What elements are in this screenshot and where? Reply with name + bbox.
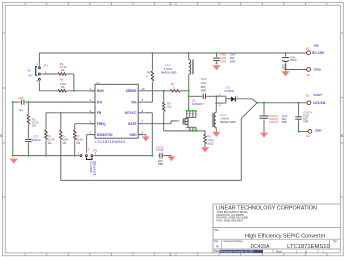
svg-text:INTVCC: INTVCC — [125, 111, 138, 115]
svg-text:LTC1871EMS10: LTC1871EMS10 — [95, 140, 125, 144]
title block company text — [216, 205, 317, 222]
node COUT4 gnd junction — [297, 130, 299, 132]
jumper JP2 — [78, 147, 97, 159]
wire D1 cathode to VOUT — [235, 99, 257, 103]
capacitor CVCC — [158, 153, 164, 159]
svg-text:DC415A: DC415A — [251, 244, 271, 250]
svg-text:R2: R2 — [171, 82, 175, 86]
node B lower junction — [215, 102, 217, 104]
node INTVCC-CVCC junction — [151, 155, 153, 157]
label JP1 On/Off — [28, 69, 32, 78]
node COUT1 junction — [263, 102, 265, 104]
wire RC-CC2 chain — [27, 102, 29, 156]
node CIN rail junction — [215, 52, 217, 54]
svg-text:1%: 1% — [62, 141, 66, 145]
svg-text:1%: 1% — [76, 141, 80, 145]
label D1 — [224, 86, 235, 93]
svg-text:BH510-1009: BH510-1009 — [220, 120, 236, 124]
node L1-1 rail junction — [188, 52, 190, 54]
svg-text:3: 3 — [170, 253, 172, 257]
label RC — [32, 117, 39, 127]
node ITH-RC junction — [27, 101, 29, 103]
svg-text:VIN: VIN — [131, 100, 137, 104]
svg-text:SENSE: SENSE — [126, 89, 137, 93]
label COUT1-3 — [269, 114, 288, 124]
terminal E1 — [306, 43, 325, 55]
capacitor COUT1 COUT2 COUT3 — [260, 114, 269, 120]
svg-text:12V/2A: 12V/2A — [313, 101, 326, 105]
svg-text:High Efficiency SEPIC Converte: High Efficiency SEPIC Converter — [245, 233, 326, 239]
label R1 — [60, 62, 67, 72]
svg-text:X5R: X5R — [201, 89, 206, 93]
resistor R4 — [60, 129, 63, 141]
wire R5 top — [204, 131, 206, 134]
svg-text:Sheet: Sheet — [276, 250, 282, 253]
diode D1 UPS840 — [219, 93, 239, 107]
wire node B vertical — [215, 96, 217, 112]
ground CIN4 — [281, 71, 289, 76]
svg-text:FREQ: FREQ — [97, 122, 106, 126]
node SW-CDC junction — [188, 95, 190, 97]
label R2 — [171, 82, 176, 89]
node R3 ground junction — [45, 155, 47, 157]
label R7 — [76, 134, 83, 145]
label CDC — [201, 77, 207, 93]
node ground rail left end — [12, 155, 14, 157]
svg-text:TPS: TPS — [282, 66, 287, 70]
capacitor CC2 — [25, 138, 32, 144]
label R5 — [207, 135, 214, 146]
capacitor COUT4 — [295, 115, 302, 121]
resistor R3 — [45, 129, 48, 141]
label Q1 — [192, 99, 204, 107]
label R6 — [60, 77, 66, 89]
wire ground rail — [13, 155, 75, 157]
wire E4 gnd wire — [299, 130, 308, 132]
svg-text:GATE: GATE — [128, 122, 137, 126]
node R8 rail junction — [151, 52, 153, 54]
inductor L1-2 — [212, 111, 216, 130]
node VOUT junction — [256, 102, 258, 104]
svg-text:X7R: X7R — [303, 119, 308, 123]
svg-text:B: B — [341, 134, 343, 138]
wire R4 top — [60, 113, 62, 130]
node CIN4 gnd junction — [284, 68, 286, 70]
svg-text:1%: 1% — [61, 85, 65, 89]
svg-text:10uF: 10uF — [230, 52, 236, 56]
title block date row — [214, 250, 325, 254]
svg-text:CIN2: CIN2 — [220, 56, 226, 60]
svg-text:Si4840DY: Si4840DY — [192, 102, 204, 106]
inductor L1-1 — [189, 58, 194, 77]
label R8 — [146, 71, 151, 79]
ground IC GND pin — [142, 137, 150, 142]
label U1 — [96, 81, 100, 85]
wire CIN stub — [216, 53, 218, 63]
op-amp U1 LTC1871EMS10 box — [89, 84, 145, 138]
node FB-R4 junction — [60, 112, 62, 114]
svg-text:JP1: JP1 — [43, 64, 48, 68]
svg-text:B: B — [0, 134, 2, 138]
svg-text:X5R: X5R — [282, 120, 287, 124]
svg-text:UPS840: UPS840 — [224, 89, 235, 93]
wire MODE/SYNC line — [87, 135, 95, 154]
wire FB line — [46, 113, 95, 130]
svg-text:4.56uH: 4.56uH — [220, 117, 229, 121]
node R7 ground junction — [74, 155, 76, 157]
wire R4 bottom feedback run — [61, 103, 257, 181]
label JP1 — [43, 64, 48, 68]
svg-text:E3: E3 — [306, 93, 310, 97]
wire VOUT rail — [257, 102, 307, 104]
ground rail symbol — [10, 159, 18, 164]
svg-text:VOUT: VOUT — [313, 93, 322, 97]
svg-text:R3: R3 — [48, 134, 52, 138]
svg-text:CC1: CC1 — [18, 96, 24, 100]
svg-text:4.7uF: 4.7uF — [156, 148, 164, 152]
resistor R1 — [57, 73, 67, 76]
wire JP2 pin1 stub — [75, 155, 80, 157]
ground COUT1 — [260, 133, 268, 138]
wire R9 to source bus — [163, 91, 165, 131]
resistor R5 — [204, 133, 207, 145]
svg-text:5V-15V: 5V-15V — [312, 51, 325, 55]
wire FREQ line — [75, 124, 95, 130]
svg-text:Q1: Q1 — [192, 99, 196, 103]
svg-text:RUN: RUN — [97, 89, 105, 93]
title block document row — [214, 240, 338, 250]
node CIN4 rail junction — [284, 52, 286, 54]
svg-text:L1-2: L1-2 — [220, 113, 226, 117]
svg-text:0.012: 0.012 — [207, 138, 214, 142]
label JP2 Cont/Burst — [89, 161, 96, 177]
ground L1-2 — [212, 132, 220, 137]
svg-text:Wednesday, November 28, 2001: Wednesday, November 28, 2001 — [220, 251, 254, 254]
svg-text:ITH: ITH — [97, 100, 103, 104]
svg-text:JP2: JP2 — [93, 148, 98, 152]
label R3 — [48, 134, 55, 145]
svg-text:Date:: Date: — [214, 250, 220, 253]
svg-text:MODE/SYNC: MODE/SYNC — [97, 133, 113, 137]
svg-text:25V: 25V — [230, 56, 235, 60]
label L1-1 — [161, 63, 177, 74]
title block box — [213, 204, 340, 253]
resistor R9 — [162, 101, 165, 113]
node CIN gnd end — [215, 62, 217, 64]
svg-text:VIN: VIN — [314, 43, 320, 47]
ground CIN — [212, 65, 220, 70]
svg-text:Document Number: Document Number — [224, 240, 244, 243]
svg-text:Off: Off — [28, 74, 32, 78]
transistor Q1 Si4840DY — [178, 110, 199, 132]
wire VIN pin to R8 — [144, 53, 152, 102]
svg-text:CDC: CDC — [201, 77, 207, 81]
svg-text:3: 3 — [170, 2, 172, 6]
svg-text:D1: D1 — [226, 86, 230, 90]
node ITH-rail corner — [12, 101, 14, 103]
resistor RC — [27, 113, 30, 125]
svg-text:GND: GND — [314, 68, 322, 72]
wire VIN top rail — [39, 52, 307, 54]
title block title text — [214, 229, 326, 240]
svg-text:GND: GND — [129, 133, 137, 137]
label CVCC — [156, 145, 164, 166]
wire INTVCC down — [144, 113, 152, 156]
capacitor CIN1 CIN2 CIN3 — [213, 56, 220, 62]
wire ITH line — [13, 101, 95, 103]
svg-text:4.56uH: 4.56uH — [164, 67, 173, 71]
svg-text:6800pF: 6800pF — [32, 138, 41, 142]
wire L1-2 bottom — [215, 127, 217, 132]
wire CIN4 stubs — [286, 53, 307, 71]
svg-text:E1: E1 — [306, 47, 310, 51]
node B top junction — [215, 95, 217, 97]
wire R1 to corner — [67, 74, 74, 91]
label JP2 — [93, 148, 98, 152]
svg-text:CC2: CC2 — [33, 134, 39, 138]
svg-text:10uF: 10uF — [201, 81, 207, 85]
wire SENSE line — [144, 90, 188, 92]
label R9 — [167, 101, 172, 108]
svg-text:1%: 1% — [48, 141, 52, 145]
wire ITH ground branch — [12, 102, 14, 156]
svg-text:Burst:: Burst: — [93, 161, 97, 177]
wire SW to CDC — [189, 95, 203, 97]
wire R3 bottom — [45, 140, 47, 156]
svg-text:CIN1: CIN1 — [220, 52, 226, 56]
svg-text:COUT3: COUT3 — [269, 120, 278, 124]
wire JP2 pin3 to INTVCC node — [93, 155, 152, 157]
svg-text:1%: 1% — [61, 68, 65, 72]
svg-text:Opt: Opt — [19, 108, 24, 112]
label R4 — [62, 134, 68, 145]
node RUN junction — [73, 90, 75, 92]
terminal E2 — [307, 68, 322, 78]
svg-text:X5R: X5R — [158, 162, 163, 166]
label CIN4 — [282, 55, 297, 70]
svg-text:1%: 1% — [32, 124, 36, 128]
svg-text:R5: R5 — [207, 135, 211, 139]
wire COUT4 stubs — [298, 103, 300, 132]
wire RUN line — [39, 90, 95, 92]
svg-text:R7: R7 — [76, 134, 80, 138]
wire GATE line — [144, 121, 178, 124]
wire D1 anode stubs — [216, 96, 231, 103]
label CC2 — [32, 134, 41, 142]
wire R5 bottom — [204, 144, 206, 147]
capacitor CDC — [201, 94, 207, 100]
svg-text:LTC1871EMS10: LTC1871EMS10 — [287, 244, 330, 250]
svg-text:FB: FB — [97, 111, 102, 115]
terminal E4 — [306, 129, 322, 139]
wire JP1 pin2 to R1 — [41, 73, 58, 75]
svg-text:L1-1: L1-1 — [165, 63, 171, 67]
svg-text:Size: Size — [214, 241, 219, 243]
svg-text:Opt: Opt — [167, 104, 172, 108]
svg-text:E4: E4 — [306, 134, 310, 138]
ground CVCC — [168, 156, 176, 161]
svg-text:R4: R4 — [62, 134, 66, 138]
resistor R7 — [73, 129, 76, 141]
svg-text:R8: R8 — [147, 71, 151, 75]
wire CVCC ground stub — [163, 155, 171, 158]
wire SW vertical — [188, 53, 190, 111]
wire CDC to node B — [206, 95, 216, 97]
svg-text:2512: 2512 — [207, 142, 213, 146]
svg-text:On: On — [28, 69, 32, 73]
capacitor CIN4 — [282, 56, 289, 64]
label CC1 — [18, 96, 24, 112]
label U1 part number — [95, 140, 125, 144]
svg-text:X5R: X5R — [230, 59, 235, 63]
resistor R6 — [57, 90, 67, 93]
wire JP1 pin1 to VIN rail — [38, 53, 40, 66]
node CC2 ground junction — [27, 155, 29, 157]
svg-text:25V: 25V — [201, 85, 206, 89]
label COUT4 — [303, 110, 312, 123]
wire Q1 source bus — [164, 130, 205, 132]
wire COUT1 stubs — [263, 103, 265, 133]
svg-text:R6: R6 — [60, 77, 64, 81]
svg-text:Title: Title — [214, 229, 219, 232]
node SENSE-R9 junction — [163, 90, 165, 92]
terminal E3 — [306, 93, 326, 105]
resistor R2 — [169, 90, 181, 93]
ground R5 — [201, 147, 209, 152]
svg-text:BH510-1009: BH510-1009 — [161, 71, 177, 75]
wire JP1 pin3 down to RUN line — [38, 81, 40, 91]
resistor R8 — [151, 70, 154, 83]
svg-text:GND: GND — [315, 129, 323, 133]
svg-text:100uF: 100uF — [290, 58, 298, 62]
jumper JP1 — [36, 62, 47, 83]
label CIN1-3 — [220, 52, 236, 63]
wire GND pin stub — [138, 135, 146, 137]
capacitor CC1 — [20, 100, 26, 105]
wire R7 bottom — [74, 140, 76, 156]
node COUT4 junction — [297, 102, 299, 104]
svg-text:E2: E2 — [307, 73, 311, 77]
label L1-2 — [220, 113, 236, 124]
node SENSE-drain junction — [188, 90, 190, 92]
svg-text:U1: U1 — [96, 81, 100, 85]
svg-text:CIN3: CIN3 — [220, 59, 226, 63]
svg-text:FAX: (408) 434-0507: FAX: (408) 434-0507 — [217, 218, 244, 222]
